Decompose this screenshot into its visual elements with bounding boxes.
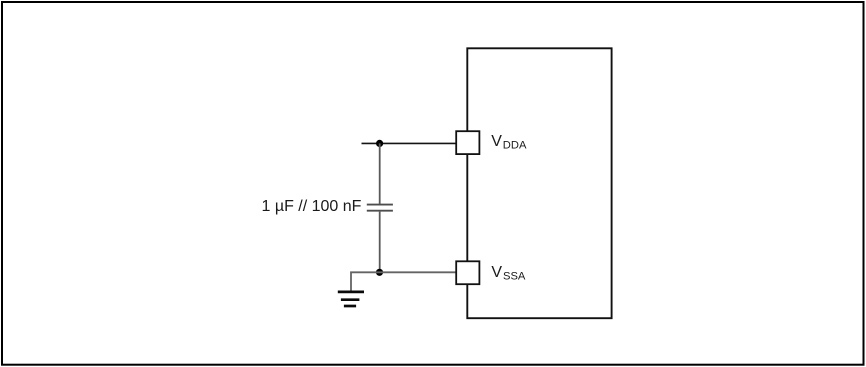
svg-text:SSA: SSA xyxy=(503,271,526,283)
svg-text:V: V xyxy=(491,264,502,281)
svg-text:DDA: DDA xyxy=(503,140,527,152)
MCU block U1 xyxy=(467,48,611,318)
svg-text:V: V xyxy=(491,133,502,150)
pin VSSA xyxy=(456,261,479,284)
wire capacitor top lead xyxy=(379,143,381,204)
wire VSSA net xyxy=(351,272,456,291)
node junction VSSA xyxy=(376,269,383,276)
wire VDDA net xyxy=(362,142,457,144)
ground xyxy=(338,292,364,306)
capacitor C1 (1 uF // 100 nF) xyxy=(367,205,393,211)
pin VDDA xyxy=(456,131,479,154)
node junction VDDA xyxy=(376,140,383,147)
svg-text:1 µF // 100 nF: 1 µF // 100 nF xyxy=(262,198,362,215)
wire capacitor bottom lead xyxy=(379,212,381,273)
